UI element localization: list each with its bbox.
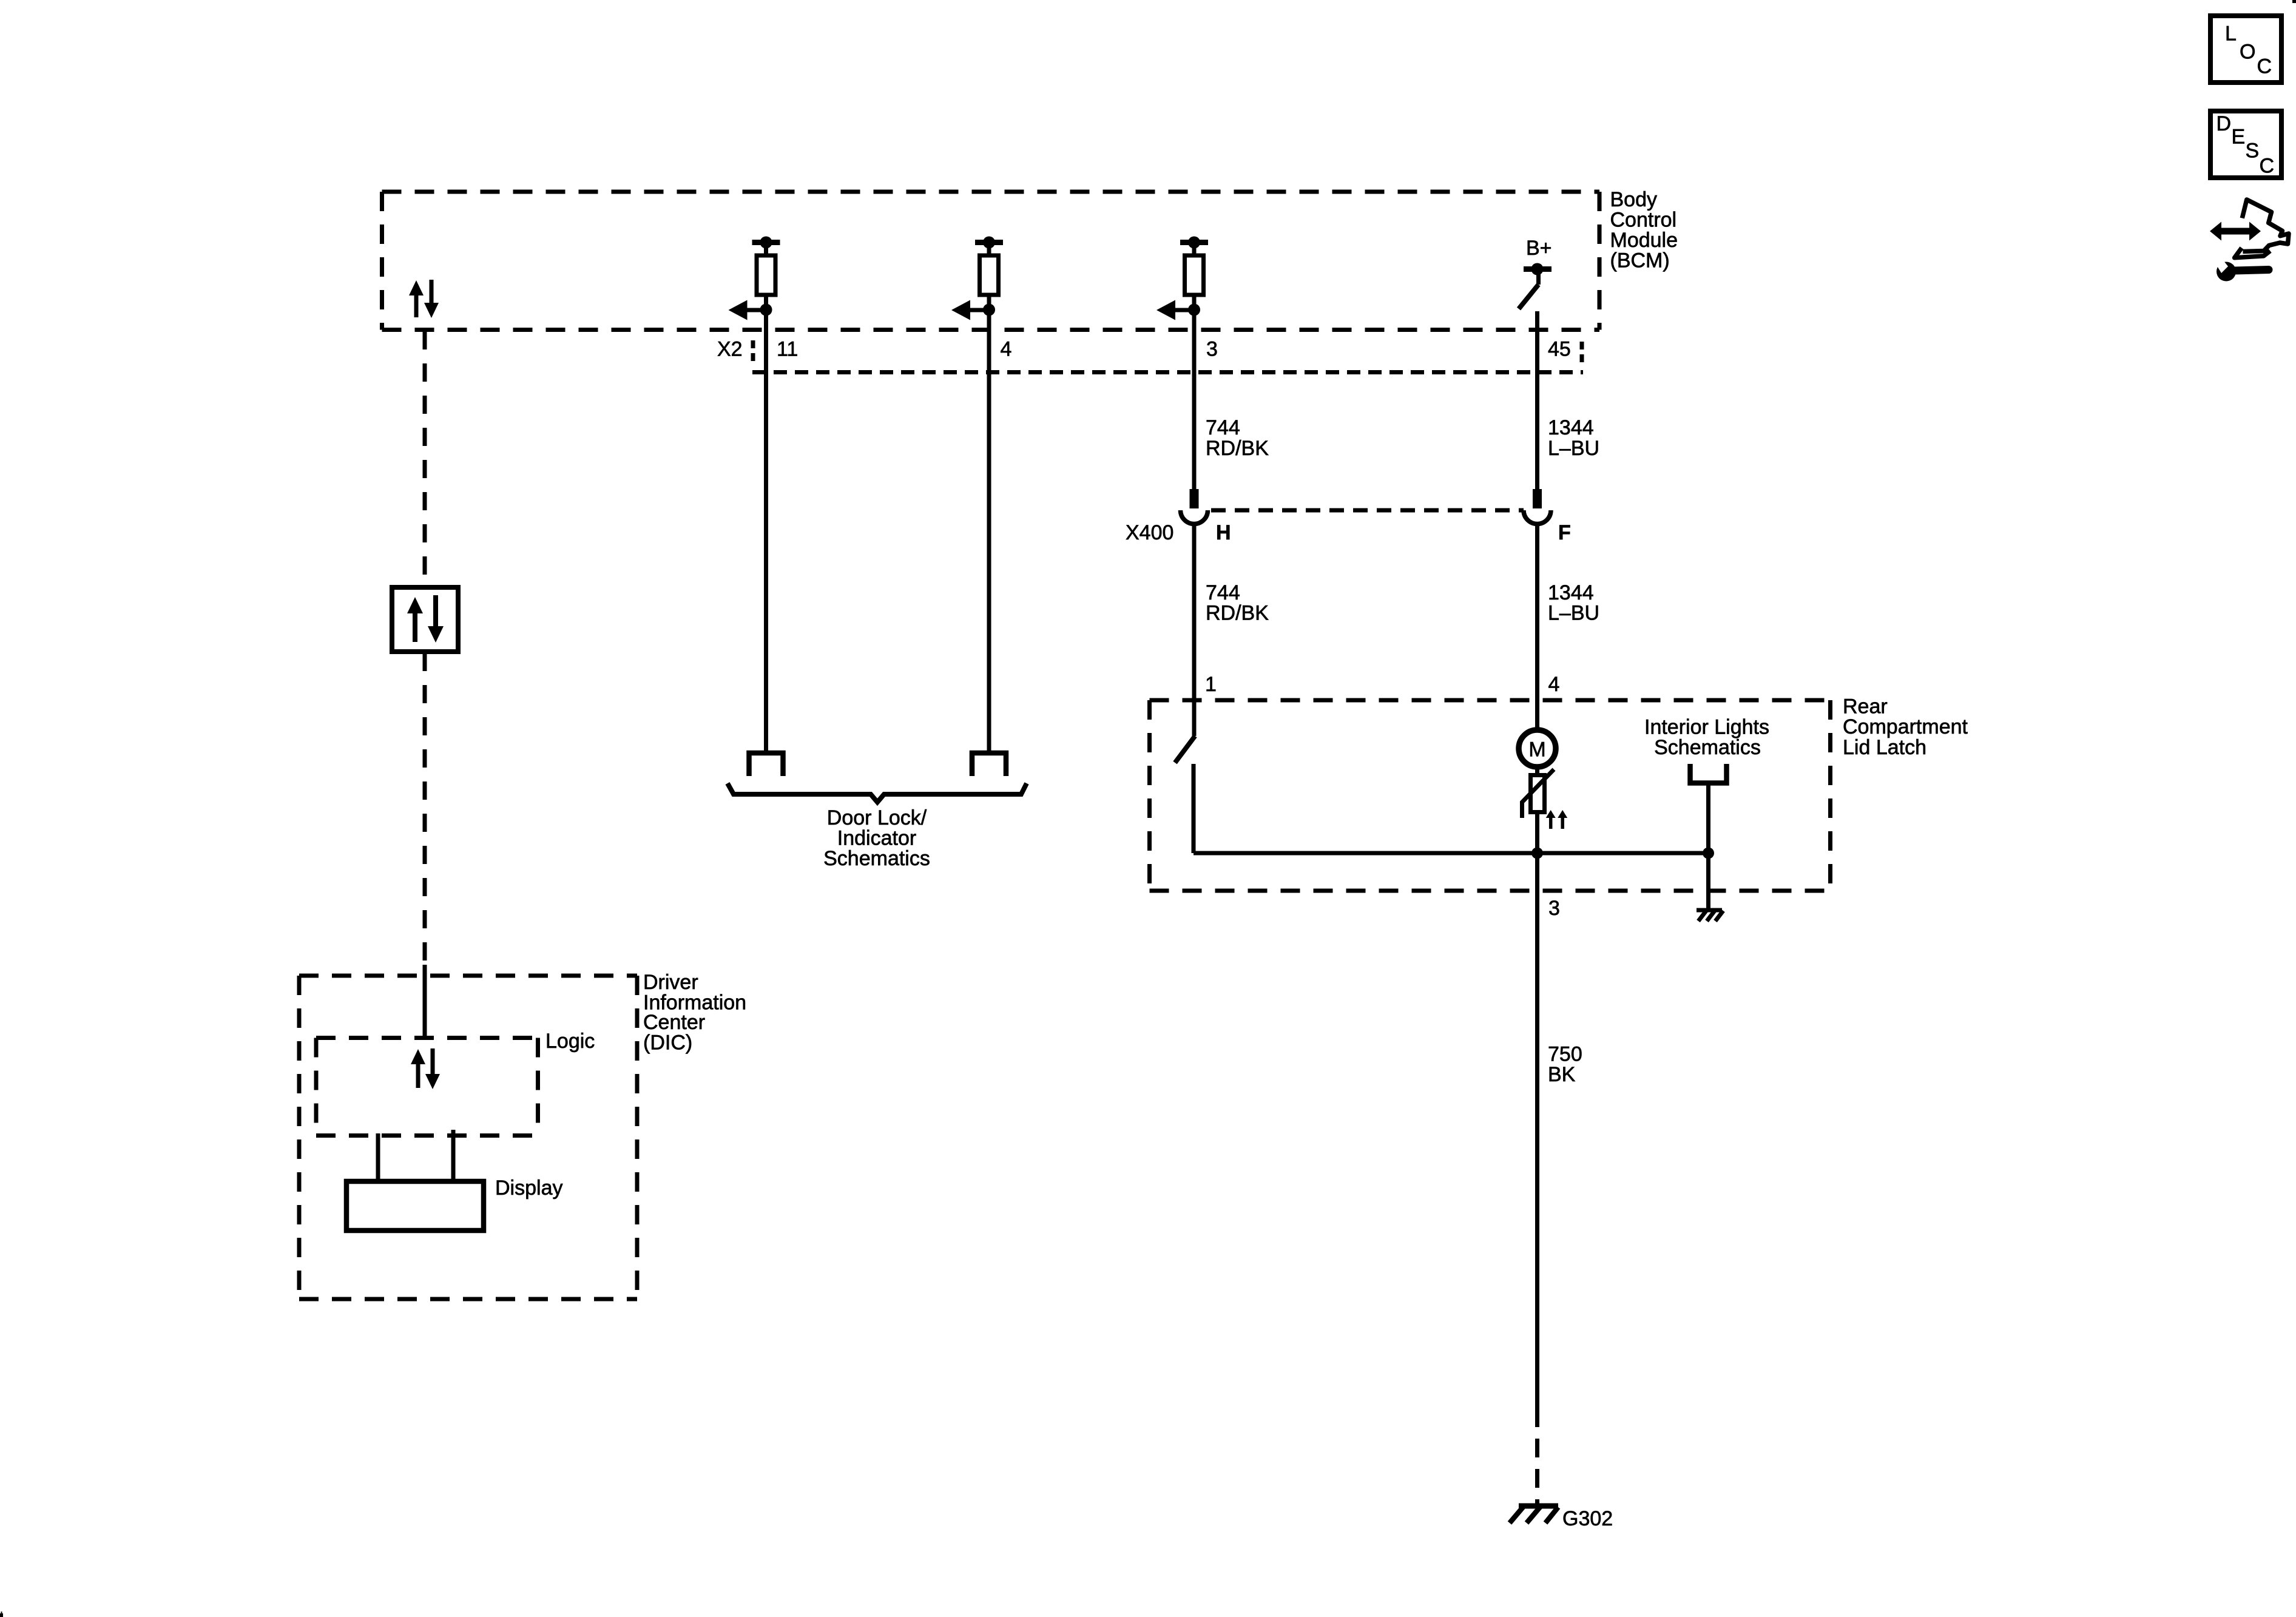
svg-text:O: O [2240,41,2255,64]
svg-text:Rear: Rear [1843,695,1888,718]
svg-text:Compartment: Compartment [1843,715,1968,738]
wire: pin 3 down to X400 H [1192,310,1197,490]
BCM serial data arrows (up/down) [409,280,439,318]
wire label 750 BK [1548,1043,1582,1087]
wire: latch switch contact down [1192,764,1196,853]
svg-text:C: C [2260,155,2275,178]
wire: dashed segment above G302 [1535,1439,1539,1506]
page corner tick top right [2292,0,2296,3]
svg-text:11: 11 [777,338,798,361]
svg-text:Control: Control [1610,209,1677,232]
ground G302 [1510,1506,1558,1523]
latch label: Rear Compartment Lid Latch [1843,695,1968,760]
svg-text:45: 45 [1548,338,1571,361]
svg-text:F: F [1558,521,1571,544]
trunk/tool icon: wrench [2213,255,2269,282]
DIC label: Driver Information Center (DIC) [643,971,746,1055]
page corner dot bottom left [0,1613,3,1617]
svg-text:Interior Lights: Interior Lights [1644,716,1769,739]
svg-text:E: E [2232,126,2246,149]
svg-text:Indicator: Indicator [837,827,916,850]
X2 connector left stub [751,340,755,366]
svg-text:M: M [1528,738,1545,761]
junction node at interior lights leg [1703,848,1714,859]
label: Interior Lights Schematics [1644,716,1769,760]
driver resistor R1 with arrow (pin 11) [729,237,780,320]
svg-text:4: 4 [1548,673,1560,696]
wire: dashed serial data line from BCM to DIC [423,331,427,966]
svg-text:3: 3 [1206,338,1218,361]
svg-text:3: 3 [1548,897,1560,920]
wire label 1344 L-BU (lower) [1548,581,1599,625]
svg-text:Door Lock/: Door Lock/ [827,806,927,829]
svg-text:C: C [2257,55,2272,78]
svg-text:1344: 1344 [1548,416,1594,439]
svg-text:1344: 1344 [1548,581,1594,604]
wire: pin 45 down to X400 F [1535,311,1539,489]
wire label 744 RD/BK (lower) [1206,581,1269,625]
X2 connector right stub [1580,342,1584,366]
LOC reference box [2210,16,2281,83]
svg-text:X400: X400 [1126,521,1173,544]
B+ switch in BCM [1519,263,1551,309]
svg-text:RD/BK: RD/BK [1206,437,1269,460]
label: Door Lock / Indicator Schematics [823,806,930,870]
DIC outer dashed box [299,976,637,1299]
svg-text:G302: G302 [1562,1507,1613,1530]
logic up/down arrows [411,1048,440,1089]
serial data gateway box with up/down arrows [392,587,458,652]
svg-text:(DIC): (DIC) [643,1031,692,1055]
latch motor M [1519,730,1556,767]
PTC thermal protector [1522,769,1555,818]
svg-text:L–BU: L–BU [1548,437,1599,460]
driver resistor R2 with arrow (pin 4) [951,237,1003,320]
svg-text:B+: B+ [1526,237,1552,260]
wire label 744 RD/BK (upper) [1206,416,1269,460]
wire: latch bottom horizontal [1194,851,1709,856]
wire label 1344 L-BU (upper) [1548,416,1599,460]
svg-text:Lid Latch: Lid Latch [1843,736,1926,759]
svg-text:Logic: Logic [545,1030,595,1053]
Logic dashed box [316,1038,538,1136]
svg-text:744: 744 [1206,581,1240,604]
svg-text:L: L [2225,22,2237,46]
wire: logic to display right [451,1130,456,1181]
svg-text:Body: Body [1610,188,1658,211]
driver resistor R3 with arrow (pin 3) [1156,237,1208,320]
X400 terminal H (pin and cup) [1181,489,1208,524]
trunk/tool icon: double arrow [2210,222,2261,241]
X400 terminal F (pin and cup) [1524,489,1551,524]
PTC double up arrows [1546,810,1568,829]
svg-text:L–BU: L–BU [1548,602,1599,625]
svg-text:Schematics: Schematics [823,847,930,870]
svg-text:Center: Center [643,1011,705,1034]
wire: interior lights terminal down to bottom wire [1706,785,1710,853]
wire: X400 H down to latch switch [1192,523,1197,736]
svg-text:Module: Module [1610,229,1678,252]
svg-text:D: D [2217,112,2232,135]
rear compartment lid latch dashed box [1150,700,1831,891]
wire: pin 4 down to door lock terminal [987,310,991,752]
door lock terminal (pin 11 wire) [749,753,783,776]
wire: latch to G302 (solid) [1535,853,1539,1427]
svg-text:744: 744 [1206,416,1240,439]
svg-text:Schematics: Schematics [1654,736,1761,759]
BCM module dashed box [382,192,1600,330]
svg-text:4: 4 [1001,338,1012,361]
svg-text:BK: BK [1548,1063,1576,1086]
interior lights terminal [1690,764,1727,783]
junction node at motor leg [1531,848,1543,859]
latch switch blade [1175,736,1195,763]
wire: X400 F down to latch motor [1535,523,1539,728]
wire: PTC down to junction [1535,812,1539,853]
brace under door lock wires [728,783,1027,802]
door lock terminal (pin 4 wire) [972,753,1006,776]
X2 connector dotted line [752,370,1583,374]
svg-text:Driver: Driver [643,971,698,994]
svg-text:S: S [2246,140,2260,163]
svg-text:750: 750 [1548,1043,1582,1066]
wire: logic to display left [376,1133,380,1181]
BCM label: Body Control Module (BCM) [1610,188,1678,272]
svg-text:X2: X2 [717,338,743,361]
wire: interior lights ground leg [1706,853,1710,910]
svg-text:Display: Display [495,1176,562,1200]
svg-text:H: H [1216,521,1231,544]
trunk/tool icon: lid outline [2235,200,2289,258]
svg-text:1: 1 [1205,673,1217,696]
DESC reference box [2210,111,2281,178]
display rectangle [346,1181,484,1230]
svg-text:RD/BK: RD/BK [1206,602,1269,625]
wire: solid segment entering DIC [423,965,427,1038]
chassis ground (interior lights) [1697,910,1723,921]
svg-text:(BCM): (BCM) [1610,249,1670,272]
wire: pin 11 down to door lock terminal [764,310,768,752]
X400 connector dashed line [1211,508,1524,513]
